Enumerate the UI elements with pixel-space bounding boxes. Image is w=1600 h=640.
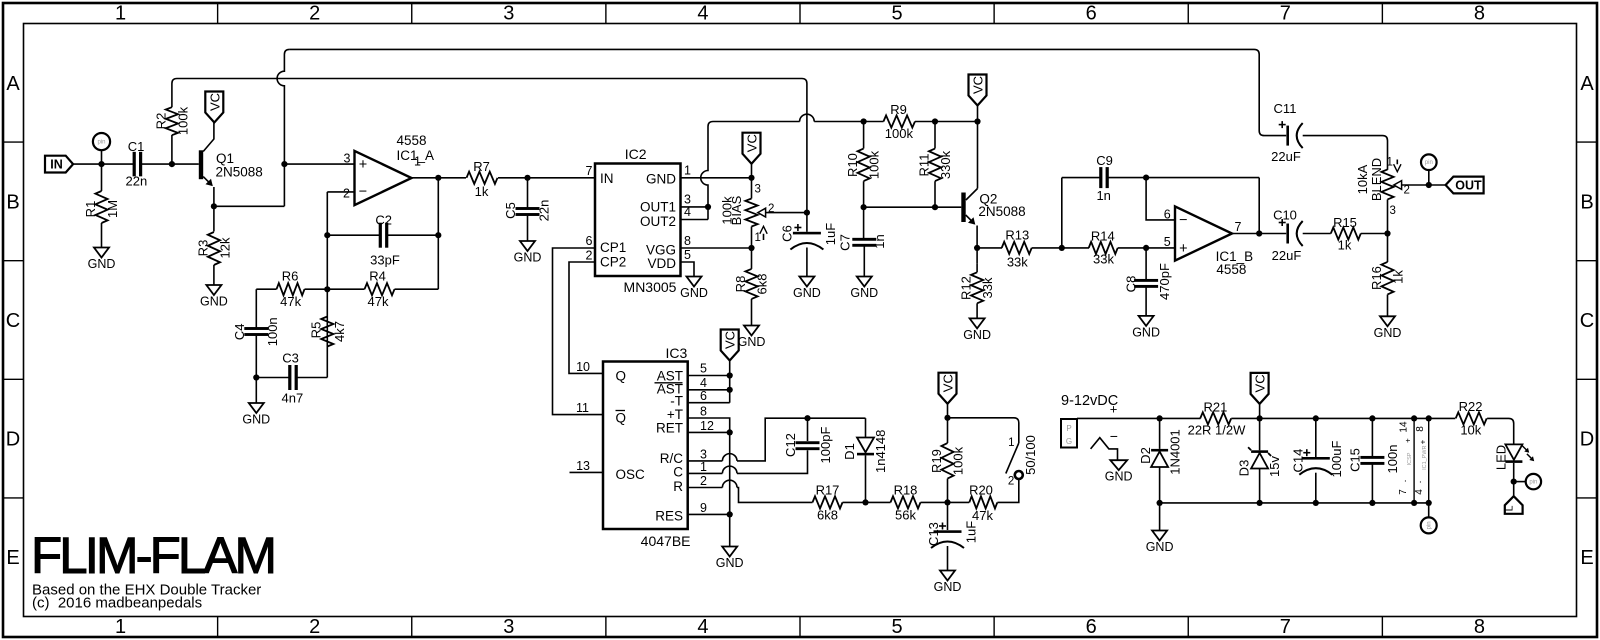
svg-text:C14: C14	[1291, 449, 1306, 473]
svg-text:1: 1	[1008, 437, 1014, 449]
svg-text:2N5088: 2N5088	[216, 165, 263, 180]
svg-text:100n: 100n	[1385, 445, 1400, 474]
svg-text:22R 1/2W: 22R 1/2W	[1188, 422, 1247, 437]
svg-text:1uF: 1uF	[964, 521, 979, 543]
svg-text:100k: 100k	[885, 126, 914, 141]
svg-text:11: 11	[576, 401, 589, 415]
svg-text:1N4001: 1N4001	[1167, 429, 1182, 475]
svg-text:A: A	[6, 73, 20, 95]
svg-text:.: .	[1398, 480, 1409, 483]
svg-text:47k: 47k	[368, 294, 389, 309]
svg-text:IN: IN	[600, 171, 614, 186]
svg-text:1n: 1n	[1096, 188, 1110, 203]
svg-text:4n7: 4n7	[282, 391, 304, 406]
svg-text:GND: GND	[738, 335, 766, 349]
svg-text:IC1_A: IC1_A	[397, 148, 435, 163]
svg-text:IC3: IC3	[666, 345, 688, 361]
svg-text:33k: 33k	[1093, 251, 1114, 266]
svg-text:4: 4	[700, 376, 707, 390]
svg-text:5: 5	[1164, 235, 1171, 249]
svg-text:47k: 47k	[280, 294, 301, 309]
svg-text:R22: R22	[1459, 399, 1483, 414]
svg-text:GND: GND	[88, 257, 116, 271]
svg-text:33k: 33k	[980, 277, 995, 298]
svg-text:12k: 12k	[217, 237, 232, 258]
svg-text:1k: 1k	[475, 184, 489, 199]
svg-text:MN3005: MN3005	[624, 279, 677, 295]
svg-text:CP2: CP2	[600, 254, 626, 269]
svg-text:VC: VC	[941, 374, 956, 392]
svg-text:GND: GND	[514, 251, 542, 265]
svg-text:100k: 100k	[867, 150, 882, 179]
svg-text:5: 5	[892, 616, 903, 638]
svg-text:R6: R6	[282, 269, 299, 284]
svg-text:1uF: 1uF	[823, 223, 838, 245]
svg-text:3: 3	[1390, 205, 1396, 217]
svg-text:12: 12	[700, 419, 714, 433]
svg-text:R3: R3	[195, 240, 210, 257]
svg-text:BIAS: BIAS	[729, 195, 744, 225]
svg-text:3: 3	[503, 3, 514, 25]
svg-text:100n: 100n	[265, 317, 280, 346]
svg-text:D2: D2	[1138, 447, 1153, 464]
svg-text:3: 3	[755, 184, 761, 196]
svg-text:5: 5	[684, 248, 691, 262]
svg-text:OUT1: OUT1	[640, 200, 676, 215]
svg-text:4558: 4558	[1216, 262, 1246, 277]
svg-text:IC2: IC2	[625, 146, 647, 162]
svg-text:3: 3	[503, 616, 514, 638]
svg-text:3: 3	[344, 152, 351, 166]
svg-text:8: 8	[1415, 426, 1426, 432]
svg-text:6: 6	[1086, 616, 1097, 638]
svg-text:4: 4	[697, 616, 708, 638]
svg-text:C8: C8	[1124, 276, 1139, 293]
svg-text:E: E	[1580, 547, 1593, 569]
svg-text:LED: LED	[1494, 445, 1509, 470]
svg-text:GND: GND	[1132, 325, 1160, 339]
svg-text:R2: R2	[153, 113, 168, 130]
svg-text:9: 9	[700, 501, 707, 515]
svg-text:7: 7	[586, 164, 593, 178]
svg-text:C3: C3	[282, 351, 299, 366]
svg-text:1n: 1n	[872, 234, 887, 248]
svg-text:100uF: 100uF	[1329, 441, 1344, 478]
svg-text:R14: R14	[1091, 229, 1115, 244]
svg-text:D: D	[6, 429, 20, 451]
svg-text:GND: GND	[793, 286, 821, 300]
svg-text:8: 8	[1474, 616, 1485, 638]
svg-text:33k: 33k	[1007, 255, 1028, 270]
svg-text:4558: 4558	[397, 133, 427, 148]
svg-text:R16: R16	[1369, 266, 1384, 290]
svg-text:6k8: 6k8	[755, 274, 770, 295]
svg-text:(c) 2016 madbeanpedals: (c) 2016 madbeanpedals	[32, 595, 202, 612]
svg-text:GND: GND	[1146, 540, 1174, 554]
svg-text:E: E	[6, 547, 19, 569]
svg-text:R20: R20	[969, 482, 993, 497]
svg-text:C2: C2	[375, 213, 392, 228]
svg-text:6: 6	[700, 389, 707, 403]
svg-text:+: +	[1110, 402, 1118, 417]
svg-text:R8: R8	[733, 276, 748, 293]
svg-text:15v: 15v	[1267, 456, 1282, 477]
svg-text:GND: GND	[680, 286, 708, 300]
svg-text:4047BE: 4047BE	[641, 533, 691, 549]
svg-text:pin: pin	[1425, 160, 1433, 166]
svg-text:GND: GND	[963, 328, 991, 342]
svg-text:GND: GND	[646, 172, 676, 187]
svg-text:GND: GND	[934, 580, 962, 594]
svg-text:GND: GND	[850, 286, 878, 300]
svg-text:B: B	[1580, 191, 1593, 213]
svg-text:50/100: 50/100	[1023, 435, 1038, 475]
svg-text:+: +	[359, 157, 367, 173]
svg-text:FLIM-FLAM: FLIM-FLAM	[31, 527, 274, 584]
svg-text:D3: D3	[1236, 460, 1251, 477]
svg-text:6k8: 6k8	[817, 508, 838, 523]
svg-text:R15: R15	[1333, 215, 1357, 230]
svg-text:C6: C6	[780, 225, 795, 242]
svg-text:D1: D1	[842, 443, 857, 460]
svg-text:470pF: 470pF	[1157, 263, 1172, 300]
svg-text:−: −	[1110, 428, 1118, 444]
svg-text:IN: IN	[50, 158, 63, 172]
svg-text:2: 2	[768, 203, 774, 215]
svg-text:47k: 47k	[972, 508, 993, 523]
svg-text:2: 2	[1008, 476, 1014, 488]
svg-text:GND: GND	[716, 556, 744, 570]
svg-text:8: 8	[1474, 3, 1485, 25]
svg-text:C: C	[1580, 310, 1594, 332]
svg-text:R4: R4	[369, 269, 386, 284]
svg-text:VC: VC	[723, 331, 738, 349]
svg-text:1: 1	[684, 163, 691, 177]
svg-text:GND: GND	[200, 295, 228, 309]
svg-text:C4: C4	[232, 323, 247, 340]
svg-text:GND: GND	[1374, 326, 1402, 340]
svg-text:R18: R18	[894, 483, 918, 498]
svg-text:pin: pin	[1529, 480, 1537, 486]
svg-text:2: 2	[343, 186, 350, 200]
svg-text:1M: 1M	[105, 200, 120, 218]
svg-text:+: +	[1179, 241, 1187, 257]
svg-text:D: D	[1580, 429, 1594, 451]
svg-text:10: 10	[576, 360, 590, 374]
svg-text:−: −	[359, 184, 367, 200]
svg-text:7: 7	[1280, 616, 1291, 638]
svg-text:33pF: 33pF	[370, 253, 400, 268]
svg-text:100k: 100k	[175, 106, 190, 135]
svg-text:100pF: 100pF	[818, 427, 833, 464]
svg-text:1k: 1k	[1391, 270, 1406, 284]
svg-text:OSC: OSC	[616, 467, 646, 482]
svg-text:R11: R11	[917, 154, 932, 177]
svg-text:R17: R17	[816, 483, 840, 498]
svg-text:P: P	[1066, 424, 1071, 433]
svg-text:RET: RET	[656, 420, 683, 435]
svg-text:IC1_PWR: IC1_PWR	[1422, 445, 1428, 469]
svg-text:OUT: OUT	[1455, 179, 1482, 193]
svg-text:C11: C11	[1274, 101, 1297, 116]
svg-text:1k: 1k	[1338, 238, 1352, 253]
svg-text:2: 2	[309, 616, 320, 638]
svg-text:C9: C9	[1096, 153, 1113, 168]
svg-text:2N5088: 2N5088	[978, 204, 1025, 219]
svg-text:22uF: 22uF	[1272, 248, 1302, 263]
svg-text:Q: Q	[616, 368, 627, 383]
svg-text:pin: pin	[97, 140, 105, 146]
svg-text:R1: R1	[83, 201, 98, 218]
svg-text:C: C	[673, 465, 683, 480]
svg-text:CP1: CP1	[600, 240, 626, 255]
svg-text:C10: C10	[1273, 208, 1297, 223]
svg-text:R5: R5	[308, 322, 323, 339]
svg-text:B: B	[6, 191, 19, 213]
svg-text:22n: 22n	[537, 200, 552, 222]
svg-text:+: +	[1419, 439, 1428, 444]
svg-text:4: 4	[1414, 489, 1425, 495]
svg-text:1: 1	[700, 460, 707, 474]
svg-text:C7: C7	[838, 234, 853, 251]
svg-text:GND: GND	[242, 413, 270, 427]
svg-text:−: −	[1179, 213, 1187, 229]
svg-text:L: L	[1504, 505, 1516, 511]
svg-text:VC: VC	[207, 93, 222, 111]
svg-text:R21: R21	[1203, 400, 1227, 415]
svg-text:VDD: VDD	[647, 256, 676, 271]
svg-text:1: 1	[1387, 157, 1393, 169]
svg-text:7: 7	[1280, 3, 1291, 25]
svg-text:R7: R7	[473, 159, 490, 174]
svg-text:A: A	[1580, 73, 1594, 95]
svg-text:13: 13	[576, 459, 590, 473]
svg-text:.: .	[1413, 481, 1424, 484]
svg-text:R9: R9	[890, 102, 907, 117]
svg-text:C12: C12	[783, 433, 798, 457]
svg-text:5: 5	[700, 362, 707, 376]
svg-text:C5: C5	[503, 202, 518, 219]
svg-text:2: 2	[586, 248, 593, 262]
svg-text:VC: VC	[971, 76, 986, 94]
svg-text:BLEND: BLEND	[1369, 158, 1384, 201]
svg-text:1: 1	[115, 616, 126, 638]
svg-text:7: 7	[1235, 220, 1242, 234]
svg-text:4k7: 4k7	[332, 321, 347, 342]
svg-text:RES: RES	[655, 508, 683, 523]
svg-text:8: 8	[684, 234, 691, 248]
svg-text:VC: VC	[745, 134, 760, 152]
svg-text:R13: R13	[1005, 228, 1029, 243]
svg-text:14: 14	[1399, 421, 1410, 433]
svg-text:22n: 22n	[126, 174, 148, 189]
svg-text:4: 4	[697, 3, 708, 25]
svg-text:Q: Q	[616, 411, 627, 426]
svg-text:100k: 100k	[951, 446, 966, 475]
svg-text:C13: C13	[926, 522, 941, 546]
svg-text:R12: R12	[959, 276, 974, 300]
svg-text:C15: C15	[1348, 448, 1363, 472]
svg-text:ICSP: ICSP	[1407, 452, 1413, 465]
svg-text:10kA: 10kA	[1355, 164, 1370, 194]
svg-text:6: 6	[1086, 3, 1097, 25]
svg-text:2: 2	[1404, 185, 1410, 197]
svg-text:5: 5	[892, 3, 903, 25]
svg-text:OUT2: OUT2	[640, 214, 676, 229]
svg-text:R19: R19	[929, 449, 944, 473]
svg-text:56k: 56k	[895, 508, 916, 523]
svg-text:R10: R10	[845, 153, 860, 177]
svg-text:+: +	[1404, 438, 1413, 443]
svg-text:22uF: 22uF	[1271, 149, 1301, 164]
svg-text:6: 6	[1164, 207, 1171, 221]
svg-text:10k: 10k	[1460, 423, 1481, 438]
svg-text:VC: VC	[1253, 374, 1268, 392]
svg-text:7: 7	[1398, 489, 1409, 495]
svg-text:330k: 330k	[938, 150, 953, 179]
svg-text:2: 2	[700, 474, 707, 488]
svg-text:8: 8	[700, 405, 707, 419]
svg-text:R: R	[673, 479, 683, 494]
svg-text:2: 2	[309, 3, 320, 25]
svg-text:1: 1	[115, 3, 126, 25]
svg-text:GND: GND	[1105, 470, 1133, 484]
svg-text:1n4148: 1n4148	[873, 430, 888, 473]
svg-text:G: G	[1066, 437, 1072, 446]
svg-text:C: C	[6, 310, 20, 332]
svg-text:C1: C1	[128, 139, 145, 154]
svg-text:pin: pin	[1427, 521, 1433, 529]
svg-text:6: 6	[586, 234, 593, 248]
